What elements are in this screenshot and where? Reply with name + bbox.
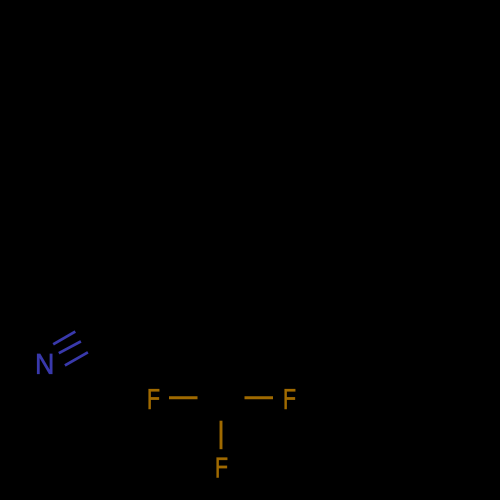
- bond C-F1 (left horizontal): [169, 396, 198, 399]
- triple bond C#N line 3 (bottom): [65, 352, 88, 365]
- fluorine label F3 (bottom): [217, 458, 228, 478]
- bond C-F3 (vertical): [220, 421, 223, 450]
- bond C-F2 (right horizontal): [245, 396, 274, 399]
- nitrogen label N (nitrile): [37, 354, 52, 374]
- triple bond C#N line 1 (top): [53, 332, 75, 345]
- triple bond C#N line 2 (middle): [59, 341, 81, 353]
- fluorine label F2 (right): [285, 389, 296, 409]
- fluorine label F1 (left): [149, 389, 160, 409]
